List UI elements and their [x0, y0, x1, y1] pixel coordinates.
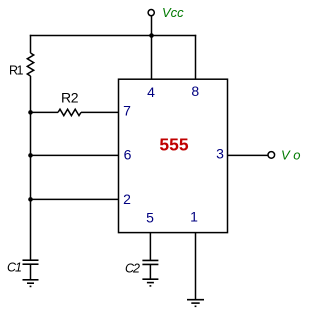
wire top horizontal — [30, 35, 196, 37]
svg-text:C2: C2 — [125, 262, 140, 276]
terminal Vo — [268, 152, 275, 159]
wire R2 row left — [31, 111, 59, 113]
junction Vcc node — [149, 33, 154, 38]
wire left rail top — [30, 35, 32, 53]
wire R2 to pin 7 — [81, 111, 119, 113]
ground C2 — [142, 279, 158, 286]
resistor R1 — [27, 53, 33, 76]
svg-text:C1: C1 — [7, 261, 21, 275]
svg-text:7: 7 — [123, 103, 131, 119]
ground pin 1 — [187, 300, 204, 307]
IC U1 555 body — [119, 79, 228, 232]
svg-text:555: 555 — [159, 135, 188, 155]
capacitor C2 — [142, 260, 158, 264]
svg-text:6: 6 — [124, 147, 132, 163]
wire pin 4 drop — [151, 36, 153, 80]
svg-text:8: 8 — [191, 83, 199, 99]
svg-text:1: 1 — [190, 209, 198, 225]
wire pin 2 row — [31, 198, 119, 200]
wire pin 3 output — [228, 154, 269, 156]
resistor R2 — [58, 109, 81, 115]
terminal Vcc — [148, 10, 154, 16]
svg-text:2: 2 — [123, 191, 131, 207]
svg-text:Vcc: Vcc — [162, 5, 184, 20]
svg-text:4: 4 — [147, 84, 155, 100]
svg-text:3: 3 — [216, 146, 224, 162]
capacitor C1 — [23, 260, 39, 264]
svg-text:5: 5 — [146, 210, 154, 226]
wire C2 to ground — [149, 264, 151, 279]
wire pin 8 drop — [195, 35, 197, 80]
wire C1 to ground — [30, 264, 32, 280]
wire left rail — [30, 76, 32, 260]
junction node C — [28, 197, 33, 202]
wire pin 1 drop — [195, 233, 197, 300]
svg-text:V o: V o — [281, 148, 301, 163]
wire Vcc stub — [151, 16, 153, 36]
svg-text:R1: R1 — [9, 64, 24, 78]
svg-text:R2: R2 — [61, 90, 79, 106]
wire pin 5 drop — [149, 233, 151, 261]
junction node A — [28, 110, 33, 115]
junction node B — [28, 153, 33, 158]
wire pin 6 row — [31, 154, 119, 156]
ground C1 — [23, 280, 39, 287]
